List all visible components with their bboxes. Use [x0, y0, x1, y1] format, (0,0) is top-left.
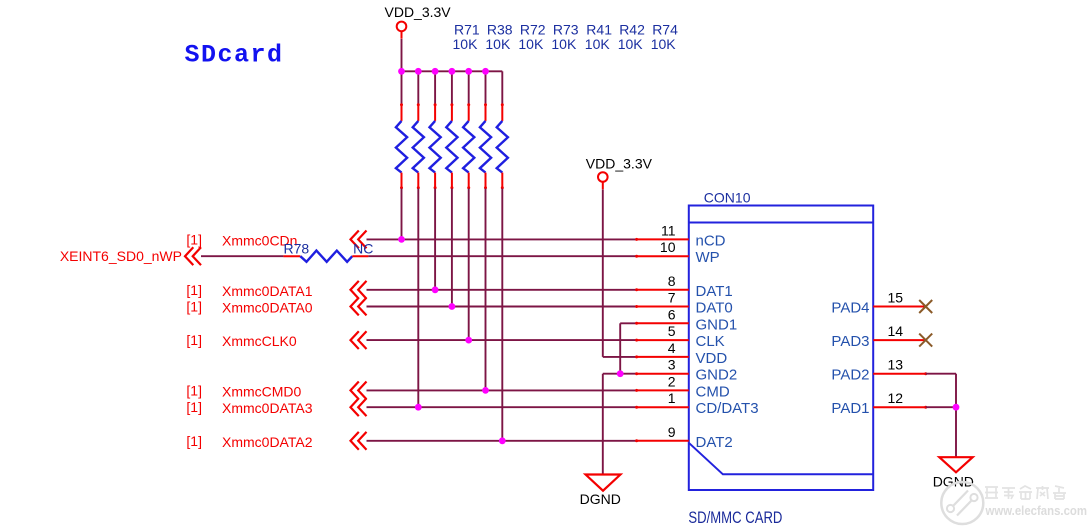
pin number 13	[888, 357, 904, 373]
pin 13 PAD2 stub	[873, 373, 926, 375]
label [1] for Xmmc0DATA3	[186, 399, 202, 415]
port chevron XmmcCMD0	[351, 382, 367, 400]
label CON10 refdes	[704, 190, 751, 206]
label R74 value 10K	[651, 36, 677, 52]
pin name CLK	[696, 333, 725, 350]
junction R74 / DAT2 net	[499, 437, 506, 444]
label R74 refdes	[652, 22, 678, 38]
label net name XmmcCLK0	[222, 333, 297, 349]
wire PAD2 to DGND	[924, 372, 956, 457]
svg-text:10K: 10K	[585, 36, 611, 52]
port chevron Xmmc0DATA0	[351, 298, 367, 316]
label R78 refdes	[284, 241, 310, 257]
label R41 refdes	[586, 22, 612, 38]
pin 12 PAD1 stub	[873, 406, 926, 408]
watermark elecfans logo	[941, 482, 1087, 524]
wire VDD top to pull-up bus	[401, 39, 403, 71]
pin 8 DAT1 stub	[637, 289, 689, 291]
svg-text:GND1: GND1	[696, 316, 738, 333]
pin number 2	[668, 373, 676, 389]
svg-text:SDcard: SDcard	[185, 40, 284, 69]
svg-text:10K: 10K	[518, 36, 544, 52]
junction R72 / DAT1 net	[432, 286, 439, 293]
pin name CMD	[696, 383, 730, 400]
pin number 14	[888, 323, 904, 339]
wire net Xmmc0DATA1 to pin	[367, 288, 639, 291]
wire GND2 to DGND	[603, 372, 638, 474]
label R42 refdes	[619, 22, 645, 38]
pin number 10	[660, 239, 676, 255]
port chevron Xmmc0DATA1	[351, 281, 367, 299]
svg-text:[1]: [1]	[186, 399, 202, 415]
label R73 value 10K	[551, 36, 577, 52]
pin 14 PAD3 stub	[873, 339, 926, 341]
pin number 1	[668, 390, 676, 406]
port chevron XmmcCLK0	[351, 331, 367, 349]
resistor R42 10K (pull-up, column 6)	[480, 71, 491, 390]
junction R71 / nCD net	[398, 236, 405, 243]
svg-text:CD/DAT3: CD/DAT3	[696, 400, 759, 417]
pin 9 DAT2 stub	[637, 440, 689, 442]
label R73 refdes	[553, 22, 579, 38]
label R71 refdes	[454, 22, 480, 38]
svg-text:3: 3	[668, 357, 676, 373]
resistor R38 10K (pull-up, column 2)	[413, 71, 424, 407]
svg-text:7: 7	[668, 290, 676, 306]
junction bus / R41	[465, 68, 472, 75]
power symbol VDD_3.3V (top)	[385, 4, 452, 39]
label NC	[353, 241, 373, 257]
no-connect X on pin 15	[919, 300, 932, 313]
svg-text:[1]: [1]	[186, 299, 202, 315]
svg-text:DAT0: DAT0	[696, 300, 733, 317]
svg-text:DGND: DGND	[580, 491, 621, 507]
svg-text:SD/MMC CARD: SD/MMC CARD	[688, 508, 782, 527]
resistor R71 10K (pull-up, column 1)	[396, 71, 407, 239]
port chevron Xmmc0CDn	[351, 231, 367, 249]
svg-text:5: 5	[668, 323, 676, 339]
pin name GND2	[696, 367, 738, 384]
pin name nCD	[696, 232, 726, 249]
resistor R73 10K (pull-up, column 4)	[446, 71, 457, 306]
junction bus / R72	[432, 68, 439, 75]
label [1] for Xmmc0CDn	[186, 231, 202, 247]
pin name DAT2	[696, 434, 733, 451]
pin 10 WP stub	[637, 255, 689, 257]
label R41 value 10K	[585, 36, 611, 52]
pin 7 DAT0 stub	[637, 306, 689, 308]
svg-text:NC: NC	[353, 241, 373, 257]
pin name CD/DAT3	[696, 400, 759, 417]
label R38 refdes	[487, 22, 513, 38]
label net name Xmmc0DATA1	[222, 283, 313, 299]
label R72 value 10K	[518, 36, 544, 52]
resistor R41 10K (pull-up, column 5)	[463, 71, 474, 340]
label net name Xmmc0CDn	[222, 232, 297, 248]
svg-text:WP: WP	[696, 249, 720, 266]
pin name WP	[696, 249, 720, 266]
pin 1 CD/DAT3 stub	[637, 406, 689, 408]
pin name VDD	[696, 350, 728, 367]
connector CON10 body	[689, 206, 873, 491]
title SDcard	[185, 40, 284, 69]
pin number 8	[668, 273, 676, 289]
port chevron XEINT6_SD0_nWP	[185, 247, 201, 265]
svg-text:VDD: VDD	[696, 350, 728, 367]
svg-text:Xmmc0DATA3: Xmmc0DATA3	[222, 400, 313, 416]
svg-text:VDD_3.3V: VDD_3.3V	[385, 4, 452, 20]
wire net Xmmc0DATA2 to pin	[367, 439, 639, 442]
label [1] for Xmmc0DATA1	[186, 282, 202, 298]
svg-text:14: 14	[888, 323, 904, 339]
svg-text:GND2: GND2	[696, 367, 738, 384]
pin number 3	[668, 357, 676, 373]
label [1] for XmmcCLK0	[186, 332, 202, 348]
svg-text:CMD: CMD	[696, 383, 730, 400]
label net name XmmcCMD0	[222, 383, 302, 399]
svg-text:XEINT6_SD0_nWP: XEINT6_SD0_nWP	[60, 248, 182, 264]
wire net Xmmc0DATA3 to pin	[367, 406, 639, 409]
svg-text:CLK: CLK	[696, 333, 725, 350]
pin 4 VDD stub	[637, 356, 689, 358]
wire net XmmcCLK0 to pin	[367, 339, 639, 342]
pin number 15	[888, 290, 904, 306]
junction PAD1/PAD2 net	[953, 404, 960, 411]
junction GND1/GND2 net	[617, 370, 624, 377]
no-connect X on pin 14	[919, 334, 932, 347]
label R42 value 10K	[618, 36, 644, 52]
pin 6 GND1 stub	[637, 322, 689, 324]
svg-text:10K: 10K	[551, 36, 577, 52]
pin number 4	[668, 340, 676, 356]
svg-text:DAT1: DAT1	[696, 283, 733, 300]
pin name PAD2	[831, 367, 869, 384]
label net name XEINT6_SD0_nWP	[60, 248, 182, 264]
svg-text:Xmmc0DATA0: Xmmc0DATA0	[222, 300, 313, 316]
label R71 value 10K	[453, 36, 479, 52]
junction R73 / DAT0 net	[449, 303, 456, 310]
label [1] for XmmcCMD0	[186, 382, 202, 398]
label net name Xmmc0DATA0	[222, 300, 313, 316]
svg-text:[1]: [1]	[186, 332, 202, 348]
svg-text:PAD2: PAD2	[831, 367, 869, 384]
svg-text:[1]: [1]	[186, 231, 202, 247]
svg-text:PAD4: PAD4	[831, 300, 869, 317]
junction R41 / CLK net	[465, 337, 472, 344]
resistor R78 (series)	[283, 251, 368, 262]
svg-text:10K: 10K	[485, 36, 511, 52]
svg-text:Xmmc0DATA1: Xmmc0DATA1	[222, 283, 313, 299]
svg-text:Xmmc0DATA2: Xmmc0DATA2	[222, 434, 313, 450]
svg-text:10K: 10K	[453, 36, 479, 52]
svg-text:12: 12	[888, 390, 904, 406]
label [1] for Xmmc0DATA2	[186, 433, 202, 449]
junction R38 / CDDAT3 net	[415, 404, 422, 411]
pin name DAT1	[696, 283, 733, 300]
wire net XmmcCMD0 to pin	[367, 389, 639, 392]
pin name PAD4	[831, 300, 869, 317]
svg-text:VDD_3.3V: VDD_3.3V	[586, 155, 653, 171]
wire pull-up bus horizontal	[402, 70, 503, 72]
wire net Xmmc0CDn to pin	[367, 238, 639, 241]
pin 2 CMD stub	[637, 389, 689, 391]
label net name Xmmc0DATA2	[222, 434, 313, 450]
port chevron Xmmc0DATA2	[351, 432, 367, 450]
svg-text:[1]: [1]	[186, 433, 202, 449]
svg-text:DAT2: DAT2	[696, 434, 733, 451]
svg-text:[1]: [1]	[186, 282, 202, 298]
pin name DAT0	[696, 300, 733, 317]
svg-text:4: 4	[668, 340, 676, 356]
svg-text:9: 9	[668, 424, 676, 440]
junction R42 / CMD net	[482, 387, 489, 394]
pin name GND1	[696, 316, 738, 333]
pin number 11	[661, 222, 676, 238]
junction bus / R71	[398, 68, 405, 75]
wire VDD_3.3V down to VDD pin	[603, 190, 638, 359]
svg-text:PAD1: PAD1	[831, 400, 869, 417]
svg-text:11: 11	[661, 222, 676, 238]
svg-text:1: 1	[668, 390, 676, 406]
svg-text:PAD3: PAD3	[831, 333, 869, 350]
svg-text:XmmcCMD0: XmmcCMD0	[222, 383, 302, 399]
junction bus / R38	[415, 68, 422, 75]
svg-text:CON10: CON10	[704, 190, 751, 206]
label R38 value 10K	[485, 36, 511, 52]
pin number 6	[668, 306, 676, 322]
pin name PAD1	[831, 400, 869, 417]
label net name Xmmc0DATA3	[222, 400, 313, 416]
pin number 7	[668, 290, 676, 306]
wire net Xmmc0DATA0 to pin	[367, 305, 639, 308]
wire PAD1 to DGND	[924, 406, 956, 409]
pin name PAD3	[831, 333, 869, 350]
svg-text:8: 8	[668, 273, 676, 289]
pin 3 GND2 stub	[637, 373, 689, 375]
label SD/MMC CARD	[688, 508, 782, 527]
wire GND1 loop down	[620, 322, 638, 374]
resistor R72 10K (pull-up, column 3)	[430, 71, 441, 289]
svg-text:10: 10	[660, 239, 676, 255]
svg-text:13: 13	[888, 357, 904, 373]
pin number 9	[668, 424, 676, 440]
pin 15 PAD4 stub	[873, 306, 926, 308]
svg-text:10K: 10K	[651, 36, 677, 52]
wire XEINT6_SD0_nWP to R78	[201, 255, 283, 257]
pin 5 CLK stub	[637, 339, 689, 341]
pin number 5	[668, 323, 676, 339]
svg-text:15: 15	[888, 290, 904, 306]
svg-text:R78: R78	[284, 241, 310, 257]
svg-text:www.elecfans.com: www.elecfans.com	[985, 503, 1087, 518]
resistor R74 10K (pull-up, column 7)	[497, 71, 508, 441]
ground DGND (left)	[580, 475, 621, 508]
svg-text:6: 6	[668, 306, 676, 322]
svg-text:nCD: nCD	[696, 232, 726, 249]
pin number 12	[888, 390, 904, 406]
port chevron Xmmc0DATA3	[351, 398, 367, 416]
junction bus / R73	[449, 68, 456, 75]
junction bus / R42	[482, 68, 489, 75]
power symbol VDD_3.3V (middle)	[586, 155, 653, 189]
svg-text:2: 2	[668, 373, 676, 389]
label [1] for Xmmc0DATA0	[186, 299, 202, 315]
svg-text:10K: 10K	[618, 36, 644, 52]
svg-text:XmmcCLK0: XmmcCLK0	[222, 333, 297, 349]
pin 11 nCD stub	[637, 238, 689, 240]
ground DGND (right)	[933, 457, 974, 489]
wire R78 to WP pin	[368, 255, 638, 258]
label R72 refdes	[520, 22, 546, 38]
svg-text:[1]: [1]	[186, 382, 202, 398]
